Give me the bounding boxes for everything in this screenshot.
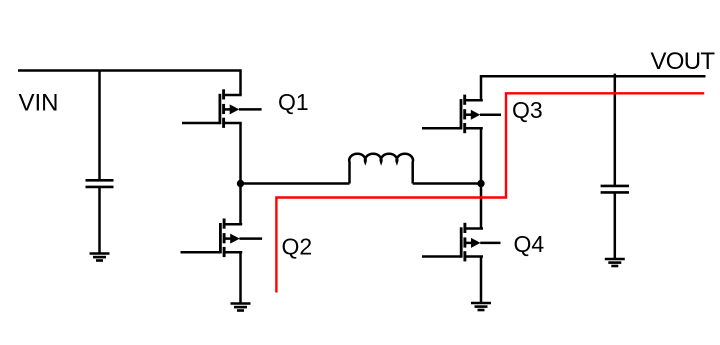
node B — [477, 180, 484, 187]
red current path — [276, 93, 704, 292]
wire CIN top lead — [98, 71, 101, 181]
label Q2 — [282, 234, 313, 260]
wire COUT top lead — [614, 74, 617, 186]
ground GND-Q4 — [471, 303, 491, 310]
capacitor COUT — [601, 186, 629, 193]
label Q3 — [512, 97, 543, 123]
wire Q4 source to ground — [480, 257, 483, 304]
wire node A to inductor — [241, 182, 350, 185]
ground GND-COUT — [605, 259, 625, 266]
wire Q1 drain — [239, 69, 242, 95]
ground GND-CIN — [90, 254, 110, 261]
transistor Q2 — [181, 219, 263, 258]
net VOUT rail — [481, 75, 706, 78]
wire Q1 source to node A — [239, 123, 242, 184]
svg-text:Q2: Q2 — [282, 234, 313, 260]
wire inductor to node B — [413, 182, 481, 185]
transistor Q4 — [422, 223, 501, 262]
net VIN rail — [18, 69, 241, 72]
svg-text:Q3: Q3 — [512, 97, 543, 123]
label VOUT — [651, 48, 716, 75]
label Q4 — [514, 231, 545, 257]
transistor Q1 — [182, 89, 262, 128]
svg-text:Q4: Q4 — [514, 231, 545, 257]
wire COUT bottom lead — [614, 192, 617, 259]
transistor Q3 — [422, 95, 501, 134]
svg-text:VIN: VIN — [19, 90, 59, 117]
wire Q2 drain from node A — [239, 184, 242, 225]
inductor L1 — [349, 154, 413, 184]
svg-text:VOUT: VOUT — [651, 48, 716, 75]
wire Q3 source to node B — [480, 128, 483, 183]
label VIN — [19, 90, 59, 117]
wire Q4 drain from node B — [480, 184, 483, 229]
capacitor CIN — [86, 180, 114, 187]
wire CIN bottom lead — [98, 187, 101, 254]
svg-text:Q1: Q1 — [278, 89, 309, 115]
wire Q2 source to ground — [239, 252, 242, 303]
label Q1 — [278, 89, 309, 115]
wire Q3 drain — [480, 75, 483, 100]
node A — [237, 180, 244, 187]
ground GND-Q2 — [231, 304, 251, 311]
